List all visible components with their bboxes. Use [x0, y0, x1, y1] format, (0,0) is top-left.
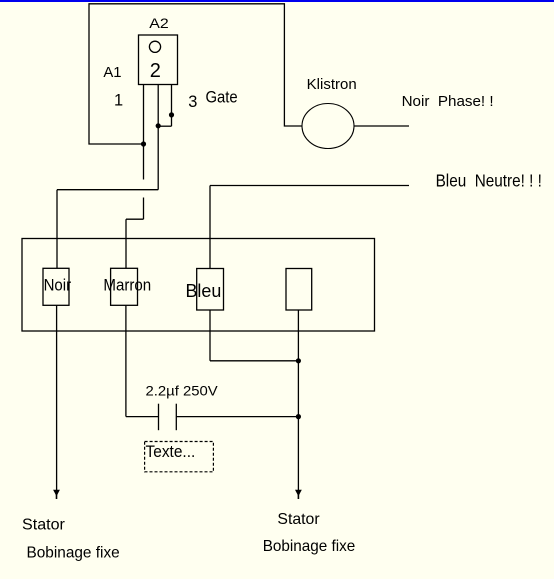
terminal Marron — [111, 268, 138, 305]
svg-text:Bobinage fixe: Bobinage fixe — [27, 544, 120, 561]
svg-text:1: 1 — [114, 92, 123, 110]
wire: pin 2 lead down and left to Noir terminal — [57, 85, 158, 269]
text frame: Texte... dashed box — [145, 442, 214, 472]
svg-text:3: 3 — [188, 93, 197, 111]
svg-text:Stator: Stator — [277, 511, 320, 528]
terminal block outline — [22, 239, 375, 332]
svg-text:Bleu Neutre! ! !: Bleu Neutre! ! ! — [436, 171, 542, 191]
svg-text:Gate: Gate — [206, 89, 238, 107]
wire: Klistron to Noir Phase line — [354, 125, 409, 127]
junction: capacitor lead / right stator wire — [296, 414, 301, 419]
svg-text:Bobinage fixe: Bobinage fixe — [263, 538, 356, 555]
arrowhead: left stator wire — [53, 490, 60, 497]
wire: Marron terminal down and right to capacitor — [126, 305, 159, 416]
svg-text:Klistron: Klistron — [307, 77, 357, 93]
Klistron motor M1 — [302, 104, 354, 149]
wire: pin 1 lead down with break over pin-2 wire, elbow to Marron terminal — [126, 85, 144, 269]
svg-text:Stator: Stator — [22, 517, 66, 534]
svg-text:A1: A1 — [103, 65, 121, 81]
terminal Bleu — [197, 269, 224, 311]
junction: on gate lead — [169, 112, 174, 117]
wire: Noir terminal down to left stator arrow — [56, 305, 58, 490]
wire: A1 loop from pin-1 junction up and over to Klistron — [89, 4, 302, 144]
svg-text:Noir Phase! !: Noir Phase! ! — [402, 94, 494, 110]
junction: gate jog on pin 2 lead — [156, 123, 161, 128]
terminal Noir — [43, 268, 69, 305]
wire: pin 3 (gate) lead jog to pin 2 lead — [158, 85, 171, 127]
svg-text:A2: A2 — [149, 16, 169, 31]
svg-text:Texte...: Texte... — [146, 442, 196, 461]
wire: capacitor right plate to right stator wire — [176, 416, 298, 418]
wire: spare terminal down to right stator arrow — [297, 310, 299, 491]
wire: Bleu Neutre line left and down to Bleu terminal — [210, 186, 409, 269]
junction: pin-1 lead / A1 loop — [141, 141, 146, 146]
svg-text:2.2µf 250V: 2.2µf 250V — [146, 382, 219, 398]
svg-text:Noir: Noir — [44, 275, 72, 294]
svg-text:Bleu: Bleu — [186, 280, 222, 301]
arrowhead: right stator wire — [295, 490, 302, 497]
capacitor C1 plates — [159, 404, 177, 431]
triac U1 mounting hole — [149, 41, 160, 52]
triac U1 package outline — [139, 35, 178, 85]
svg-text:Marron: Marron — [103, 275, 151, 294]
terminal (unlabeled spare) — [286, 269, 312, 311]
svg-text:2: 2 — [150, 60, 161, 82]
wire: Bleu terminal down and right to right stator wire — [210, 310, 298, 361]
junction: Bleu elbow / right stator wire — [296, 358, 301, 363]
